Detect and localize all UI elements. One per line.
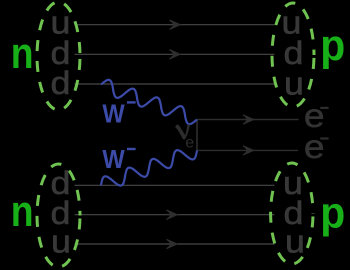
svg-text:u: u [51,224,71,260]
svg-text:W: W [102,101,125,129]
svg-text:d: d [51,66,71,102]
svg-text:e: e [185,135,194,152]
svg-text:W: W [102,146,125,174]
svg-text:e: e [304,129,325,166]
svg-text:n: n [11,186,34,236]
svg-text:u: u [284,66,304,102]
svg-text:p: p [320,189,345,238]
svg-text:p: p [320,22,345,71]
svg-text:u: u [285,224,305,260]
svg-text:n: n [11,28,34,78]
